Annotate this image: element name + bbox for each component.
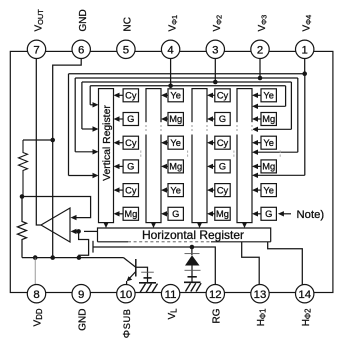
photodiode cell Ye col4 row1 — [252, 89, 276, 102]
continuation mark — [140, 151, 142, 158]
wire net Vφ3 bus (ring 2) — [75, 78, 298, 155]
svg-text:Horizontal Register: Horizontal Register — [142, 228, 244, 242]
vertical register column 2 — [145, 89, 162, 223]
junction Vφ3 — [258, 76, 263, 81]
svg-text:Cy: Cy — [125, 185, 137, 195]
svg-text:Mg: Mg — [216, 209, 229, 219]
wire amp output to VOUT pin 7 — [36, 59, 41, 226]
photodiode cell Mg col4 row4 — [252, 160, 276, 173]
junction rail/follower — [77, 255, 82, 260]
svg-text:Ye: Ye — [263, 91, 274, 101]
wire register 3 output arrow — [197, 222, 202, 228]
wire pin Vφ3 drop — [259, 59, 261, 79]
photodiode cell Ye col4 row3 — [252, 136, 276, 149]
wire pin 8 stub — [34, 258, 36, 285]
wire GND from pin 6 — [53, 59, 81, 258]
photodiode cell Mg col3 row6 — [207, 207, 230, 220]
junction divider node — [20, 194, 25, 199]
svg-text:Cy: Cy — [125, 91, 137, 101]
photodiode cell Cy col3 row5 — [207, 184, 230, 197]
wire net Vφ2 bus (ring 3) — [82, 82, 292, 132]
pin 14 — [296, 285, 314, 303]
svg-text:VL: VL — [167, 308, 179, 320]
transistor Q2 (output MOSFET) — [79, 231, 93, 257]
continuation mark — [187, 151, 189, 158]
wire horizontal register output to amp input 2 — [71, 229, 98, 234]
svg-text:HΦ1: HΦ1 — [256, 309, 268, 327]
wire register 1 output arrow — [103, 222, 108, 228]
photodiode cell G col3 row4 — [207, 160, 230, 173]
junction GND/R1 — [50, 138, 55, 143]
svg-text:Ye: Ye — [170, 91, 181, 101]
ground chassis (substrate) — [139, 283, 158, 293]
svg-text:VΦ3: VΦ3 — [257, 15, 269, 32]
wire net Vφ1 bus (ring 4) — [90, 86, 285, 109]
pin 7 — [27, 40, 45, 58]
svg-text:NC: NC — [123, 17, 134, 31]
svg-text:6: 6 — [78, 44, 84, 56]
junction Vφ4 — [302, 71, 307, 76]
svg-text:Ye: Ye — [170, 185, 181, 195]
svg-text:Vertical Register: Vertical Register — [102, 105, 113, 181]
photodiode cell Mg col2 row2 — [161, 113, 183, 126]
junction Vφ1 — [168, 84, 173, 89]
photodiode cell Cy col1 row3 — [114, 136, 139, 149]
photodiode cell G col1 row2 — [114, 113, 139, 126]
vertical register column 4 — [236, 89, 253, 223]
junction rail/GND line — [50, 255, 55, 260]
package outline box — [10, 51, 333, 292]
photodiode cell Ye col2 row3 — [161, 136, 183, 149]
svg-text:8: 8 — [33, 289, 39, 301]
svg-text:Cy: Cy — [217, 138, 229, 148]
wire Hφ1 pin 13 — [242, 242, 260, 285]
note arrow — [278, 211, 291, 216]
svg-text:G: G — [219, 162, 226, 172]
transistor Q1 (substrate clamp) — [124, 258, 136, 285]
wire R1 top stub — [23, 139, 53, 141]
photodiode cell Cy col3 row3 — [207, 136, 230, 149]
photodiode cell Ye col4 row5 — [252, 184, 276, 197]
svg-text:G: G — [172, 209, 179, 219]
pin 2 — [251, 40, 269, 58]
pin 6 — [72, 40, 90, 58]
photodiode cell Cy col1 row1 — [114, 89, 139, 102]
svg-text:Ye: Ye — [263, 138, 274, 148]
svg-text:2: 2 — [257, 44, 263, 56]
vertical register column 1 — [99, 89, 114, 223]
photodiode cell G col1 row4 — [114, 160, 139, 173]
svg-text:GND: GND — [78, 9, 89, 31]
photodiode cell G col2 row6 — [161, 207, 183, 220]
wire pin Vφ1 drop — [170, 59, 172, 86]
svg-text:G: G — [219, 114, 226, 124]
svg-text:VOUT: VOUT — [33, 9, 45, 32]
capacitor C1 — [185, 270, 201, 277]
op-amp U1 — [41, 208, 70, 242]
svg-text:7: 7 — [33, 44, 39, 56]
pin 13 — [251, 285, 269, 303]
photodiode cell Cy col3 row1 — [207, 89, 230, 102]
svg-text:G: G — [127, 114, 134, 124]
pin 3 — [206, 40, 224, 58]
svg-text:VDD: VDD — [33, 308, 45, 326]
wire RG line — [93, 247, 215, 285]
svg-text:Mg: Mg — [169, 114, 182, 124]
photodiode cell G col4 row6 — [252, 207, 276, 220]
pin 5 — [117, 40, 135, 58]
wire pin Vφ2 drop — [214, 59, 216, 83]
wire bottom rail — [22, 257, 124, 259]
svg-text:VΦ2: VΦ2 — [212, 15, 224, 32]
svg-text:11: 11 — [165, 289, 177, 301]
svg-text:14: 14 — [298, 289, 311, 301]
junction amp input node — [76, 229, 81, 234]
junction RG/diode — [190, 245, 195, 250]
vertical register column 3 — [191, 89, 208, 223]
svg-text:ΦSUB: ΦSUB — [121, 309, 133, 339]
svg-text:5: 5 — [123, 44, 129, 56]
svg-text:Mg: Mg — [262, 114, 275, 124]
svg-text:9: 9 — [78, 289, 84, 301]
photodiode cell Mg col1 row6 — [114, 207, 139, 220]
pin 4 — [161, 40, 179, 58]
continuation mark — [233, 151, 235, 158]
svg-text:Cy: Cy — [217, 185, 229, 195]
pin 10 — [117, 285, 135, 303]
svg-text:RG: RG — [212, 308, 223, 323]
svg-text:10: 10 — [120, 289, 133, 301]
photodiode cell Ye col2 row5 — [161, 184, 183, 197]
pin 12 — [206, 285, 224, 303]
junction Vφ2 — [213, 80, 218, 85]
pin 11 — [161, 285, 179, 303]
svg-text:G: G — [265, 209, 272, 219]
resistor R2 — [18, 197, 27, 258]
svg-text:1: 1 — [302, 44, 308, 56]
photodiode cell G col3 row2 — [207, 113, 230, 126]
horizontal register — [98, 228, 271, 242]
svg-text:Ye: Ye — [263, 185, 274, 195]
svg-text:VΦ1: VΦ1 — [167, 15, 179, 32]
wire net Vφ4 bus (ring 1) — [69, 74, 305, 178]
svg-text:G: G — [127, 162, 134, 172]
photodiode cell Cy col1 row5 — [114, 184, 139, 197]
svg-text:Cy: Cy — [125, 138, 137, 148]
svg-text:Note): Note) — [297, 209, 325, 221]
resistor R1 — [19, 140, 28, 197]
wire Hφ2 pin 14 — [268, 242, 303, 285]
svg-text:13: 13 — [254, 289, 267, 301]
svg-text:VΦ4: VΦ4 — [302, 15, 314, 32]
ground chassis (diode) — [184, 282, 201, 291]
junction rail/pin8 — [33, 255, 38, 260]
photodiode cell Mg col2 row4 — [161, 160, 183, 173]
svg-text:3: 3 — [212, 44, 218, 56]
svg-text:12: 12 — [209, 289, 222, 301]
pin 8 — [27, 285, 45, 303]
pin 1 — [296, 40, 314, 58]
capacitor C2 — [136, 267, 154, 282]
svg-text:Mg: Mg — [169, 162, 182, 172]
svg-text:Cy: Cy — [217, 91, 229, 101]
svg-text:Mg: Mg — [262, 162, 275, 172]
svg-text:GND: GND — [77, 309, 88, 331]
pin 9 — [72, 285, 90, 303]
svg-text:HΦ2: HΦ2 — [301, 309, 313, 327]
wire pin Vφ4 drop — [304, 59, 306, 74]
wire register 4 output arrow — [242, 222, 247, 228]
photodiode cell Ye col2 row1 — [161, 89, 183, 102]
svg-text:Ye: Ye — [170, 138, 181, 148]
wire divider to amp input 1 — [22, 197, 91, 221]
wire register 2 output arrow — [151, 222, 156, 228]
continuation mark — [279, 151, 281, 158]
svg-text:Mg: Mg — [124, 209, 137, 219]
photodiode cell Mg col4 row2 — [252, 113, 276, 126]
svg-text:4: 4 — [167, 44, 173, 56]
diode D1 — [185, 247, 200, 282]
